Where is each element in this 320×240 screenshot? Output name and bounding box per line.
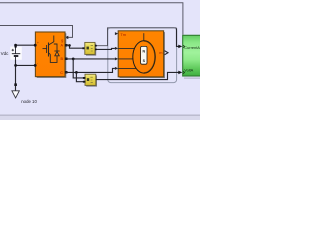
converter icon diode bar [54, 50, 59, 52]
wire C branch to voltmeter [76, 72, 85, 81]
arrowhead into green input 2 [178, 71, 182, 75]
machine m output chevron [164, 51, 168, 55]
machine icon lead C [118, 67, 136, 69]
arrowhead into green input 1 [178, 45, 182, 49]
wire voltmeter output to green block [96, 72, 179, 79]
battery short plate [14, 55, 18, 57]
converter icon collector lead [49, 36, 54, 46]
machine icon lead B [118, 58, 133, 60]
voltmeter body [85, 74, 96, 85]
wire battery plus riser [15, 45, 17, 47]
battery stem [15, 46, 17, 60]
svg-text:node 10: node 10 [21, 99, 37, 104]
machine icon rotor ellipse right shading [144, 41, 155, 73]
voltmeter left stub upper [83, 77, 86, 79]
gray annotation box around machine [108, 28, 177, 83]
svg-text:VoltA: VoltA [184, 68, 193, 73]
converter icon diode cathode rail [54, 44, 57, 51]
wire B branch to voltmeter [73, 59, 85, 78]
converter icon gate bar [46, 45, 48, 53]
battery white plate [10, 47, 21, 60]
canvas background [0, 0, 200, 120]
port dot converter minus [34, 64, 37, 67]
converter icon gate lead [43, 48, 47, 50]
voltmeter left stub lower [83, 81, 86, 83]
wire current signal from sensor to scope [95, 28, 177, 46]
green block port chevron 2 [183, 71, 184, 74]
wire phase A [66, 45, 85, 48]
bottom canvas edge line [0, 114, 200, 116]
current sensor right stub lower [95, 48, 97, 50]
port square B [65, 58, 68, 61]
current sensor right stub upper [95, 45, 97, 47]
converter icon emitter lead [49, 53, 51, 55]
machine icon shaft [143, 33, 145, 41]
svg-text:m: m [159, 50, 162, 55]
current sensor left stub [82, 47, 84, 49]
voltmeter glyph [87, 78, 89, 81]
junction dot B branch [72, 58, 75, 61]
converter icon body bar [48, 43, 50, 57]
port square A [65, 44, 68, 47]
battery plus sign [12, 49, 14, 51]
converter icon diode triangle [55, 51, 59, 55]
machine Tm input arrow [115, 32, 118, 35]
machine A input arrow [115, 47, 118, 50]
green block port chevron 1 [183, 45, 184, 48]
machine B input arrow [115, 57, 118, 60]
ground node triangle [12, 91, 19, 98]
wire phase A out of sensor to machine [95, 48, 115, 49]
top boundary line with right corner down to green block [0, 3, 183, 35]
wire battery minus to converter [16, 60, 36, 65]
current sensor body [85, 42, 95, 54]
svg-text:Vdc: Vdc [1, 51, 10, 56]
converter block body [35, 32, 65, 77]
node port square [14, 83, 17, 86]
svg-text:CurrentA: CurrentA [184, 45, 200, 50]
current sensor shadow [86, 44, 96, 56]
machine block body [118, 31, 163, 77]
wire ground drop [15, 65, 17, 90]
port dot converter plus [34, 44, 37, 47]
wire gate signal from left edge into g port [0, 26, 73, 38]
battery long plate [12, 53, 20, 55]
converter block shadow [37, 33, 67, 78]
arrowhead into g port [65, 36, 69, 39]
voltmeter glyph marks [90, 77, 92, 82]
wire from gray box edge to green input 1 [177, 28, 179, 46]
converter icon diode anode rail [50, 54, 57, 62]
port square C [65, 71, 68, 74]
wire phase C [66, 68, 115, 72]
junction dot A corner [68, 44, 71, 47]
svg-text:+: + [37, 41, 39, 45]
voltmeter shadow [86, 75, 97, 86]
junction dot C branch [75, 71, 78, 74]
green block shadow line [184, 77, 200, 79]
wire battery plus to converter [16, 44, 36, 46]
green scope block body [183, 35, 201, 76]
bottom canvas edge strip [0, 116, 200, 120]
svg-text:N: N [142, 50, 145, 54]
junction dot ground branch [14, 64, 17, 67]
machine icon lead A [118, 47, 135, 49]
machine C input arrow [115, 67, 118, 70]
machine icon rotor ellipse [133, 41, 155, 73]
machine icon magnet box [141, 46, 147, 64]
junction dot battery top terminal [14, 46, 16, 48]
current sensor glyph [87, 47, 89, 50]
machine block shadow [120, 32, 165, 78]
svg-text:C: C [60, 71, 63, 75]
svg-text:Tm: Tm [120, 32, 126, 37]
svg-text:g: g [61, 38, 63, 43]
current sensor glyph marks [91, 45, 93, 51]
wire phase B [66, 58, 115, 60]
junction dot battery top corner [14, 44, 17, 47]
